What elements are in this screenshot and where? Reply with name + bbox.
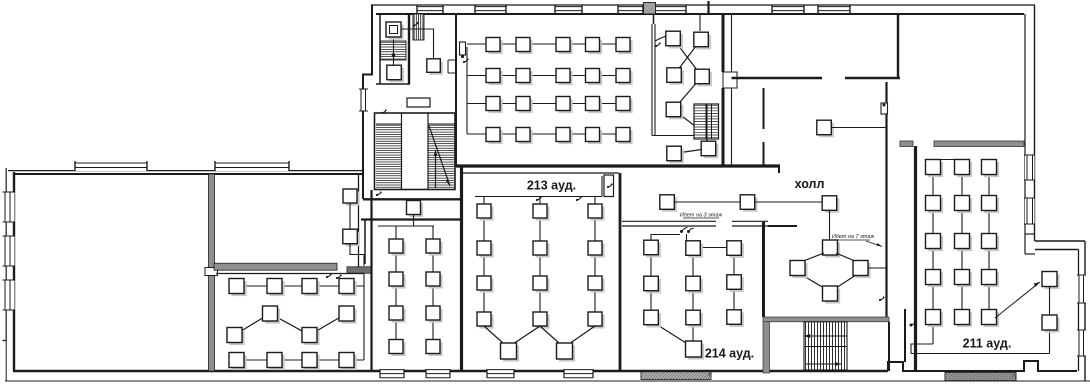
- door leaf above stairwell: [407, 98, 430, 107]
- cable bottom row room B: [237, 359, 365, 361]
- workstation room B row1: [339, 279, 357, 297]
- workstation r4c2 (top classroom): [516, 128, 533, 145]
- corridor box below stairwell: [407, 201, 424, 218]
- east wall of top room (lower): [722, 88, 725, 167]
- link E4-E5: [674, 77, 703, 110]
- workstation 214 c2: [686, 241, 703, 258]
- workstation C1: [389, 272, 406, 289]
- link E6-E7: [674, 149, 709, 154]
- workstation 211: [926, 270, 944, 288]
- east wall inner cap: [1025, 253, 1035, 255]
- duct line: [651, 24, 653, 136]
- workstation r4c5 (top classroom): [616, 128, 633, 145]
- workstation room B low: [227, 328, 245, 346]
- workstation 211: [926, 310, 944, 328]
- wall step down at hall opening: [778, 166, 780, 173]
- workstation C1: [389, 340, 406, 357]
- conduit riser symbol: [336, 274, 342, 279]
- entrance stair treads: [804, 322, 847, 370]
- hall box top: [822, 196, 839, 213]
- workstation C2: [426, 340, 443, 357]
- stair flight hatch (right): [429, 125, 455, 187]
- window (bottom wall): [487, 369, 514, 379]
- cable along room C north: [378, 225, 434, 227]
- workstation r4c3 (top classroom): [556, 128, 573, 145]
- workstation C2: [426, 272, 443, 289]
- link E5-radiator shaft: [674, 110, 701, 131]
- riser tail to box E6: [706, 139, 708, 142]
- teacher box room 213 a: [501, 343, 520, 362]
- room 213 west wall: [460, 166, 463, 371]
- outer top wall line: [371, 4, 1035, 6]
- window (left wall): [3, 192, 16, 222]
- east wall inner stub: [1024, 234, 1026, 254]
- stair flight hatch (left): [376, 125, 401, 187]
- workstation r3c3 (top classroom): [556, 97, 573, 114]
- door in gray wall: [205, 268, 218, 276]
- wall south of NE room (east span): [845, 77, 900, 80]
- workstation 214 c2: [686, 276, 703, 293]
- hall corridor wall (lower segment): [763, 142, 765, 167]
- workstation r2c4 (top classroom): [586, 69, 603, 86]
- cable column 214-2: [692, 241, 694, 342]
- cable room 213 north run: [475, 196, 602, 198]
- bottom wall (left+middle): [13, 370, 888, 373]
- workstation room B low2: [302, 328, 320, 346]
- cable along 211 south: [911, 353, 1050, 355]
- gray wall above room 211: [934, 141, 1024, 147]
- workstation room 213: [533, 241, 550, 258]
- workstation 214 bottom: [686, 341, 705, 360]
- cable tray bottom line (east): [732, 225, 768, 227]
- pier tick on top wall: [707, 1, 709, 14]
- gray wall west of entrance stair: [763, 322, 770, 373]
- window (top band): [818, 5, 850, 14]
- hall east wall: [885, 82, 887, 321]
- gray wall over entrance stair: [763, 317, 889, 322]
- room B east wall (upper): [358, 174, 360, 268]
- svg-text:213 ауд.: 213 ауд.: [527, 179, 576, 193]
- corridor cable b: [755, 201, 822, 203]
- workstation room 213: [588, 312, 605, 329]
- workstation room B mid: [263, 306, 281, 324]
- window (east wall upper): [1024, 198, 1035, 224]
- workstation r3c4 (top classroom): [586, 97, 603, 114]
- window (bottom wall): [380, 369, 404, 379]
- workstation room B row1: [267, 279, 285, 297]
- workstation C1: [389, 306, 406, 323]
- window (top band): [417, 5, 443, 14]
- workstation 214 c2: [686, 310, 703, 327]
- conduit riser symbol: [607, 183, 613, 188]
- stair landing line 2: [804, 346, 847, 348]
- workstation 211: [982, 160, 1000, 178]
- window (top band): [772, 5, 804, 14]
- conduit riser symbol: [879, 296, 885, 301]
- lower building top wall outer line: [8, 170, 363, 172]
- workstation r1c4 (top classroom): [586, 38, 603, 55]
- dark wall piece at door: [347, 267, 372, 273]
- riser bar 2 in radiator block: [711, 104, 713, 139]
- workstation 211: [955, 160, 973, 178]
- workstation E6: [701, 141, 718, 158]
- gray wall stub (west of door): [900, 141, 913, 147]
- stair arrow line: [435, 150, 437, 188]
- window (bottom wall): [426, 369, 450, 379]
- diag to bottom box 1: [484, 326, 504, 344]
- workstation room B bottom row: [339, 353, 357, 371]
- cable through small stair: [393, 37, 395, 65]
- cable riser (classroom west): [466, 47, 468, 134]
- conduit riser symbol: [326, 273, 332, 278]
- arrow link to east box: [995, 282, 1040, 318]
- classroom west wall: [455, 14, 457, 167]
- window (top band): [618, 5, 643, 14]
- workstation 211: [926, 196, 944, 214]
- conduit riser symbol: [463, 58, 469, 63]
- cable up to right boxes: [1049, 330, 1051, 354]
- cable to col1: [651, 235, 680, 241]
- inner top wall: [376, 13, 1024, 15]
- workstation E3: [667, 68, 684, 85]
- wall east of entrance stair: [888, 322, 890, 371]
- drop to column: [539, 197, 541, 205]
- cable column room 213: [594, 204, 596, 326]
- workstation room B bottom row: [229, 353, 247, 371]
- hall box bottom: [823, 286, 841, 304]
- window (top wall of lower building): [75, 161, 147, 171]
- workstation r2c2 (top classroom): [516, 69, 533, 86]
- room 211 west wall: [914, 146, 917, 371]
- wall south of NE room (west span): [732, 77, 823, 80]
- cable column 214-1: [650, 240, 652, 318]
- workstation E5: [666, 102, 683, 119]
- cable along gray wall: [216, 273, 364, 275]
- wall below stair corridor (room C north): [361, 218, 462, 220]
- workstation 211 east 2: [1042, 315, 1060, 333]
- workstation r1c2 (top classroom): [516, 38, 533, 55]
- riser box B-up2: [343, 229, 360, 246]
- leader arrow: [866, 241, 882, 247]
- room 213/214 wall: [619, 173, 622, 371]
- workstation r3c1 (top classroom): [486, 97, 503, 114]
- workstation room B bottom row: [267, 353, 285, 371]
- workstation 214 c3: [727, 275, 744, 292]
- conduit riser symbol: [376, 191, 382, 196]
- corridor box 1: [660, 195, 677, 212]
- conduit riser symbol: [655, 42, 661, 47]
- bottom wall (right, with door notches): [888, 361, 1077, 371]
- workstation E7: [667, 146, 684, 163]
- workstation 211: [955, 310, 973, 328]
- gray wall (big room east): [209, 174, 215, 371]
- diag mid-right: [836, 253, 856, 262]
- svg-text:Идет на 7 этаж: Идет на 7 этаж: [832, 234, 875, 240]
- cable tray top line (west): [622, 220, 716, 222]
- svg-text:холл: холл: [795, 177, 825, 191]
- step wall (outer): [1035, 240, 1085, 242]
- workstation room 213: [533, 312, 550, 329]
- workstation 214 c1: [644, 240, 661, 257]
- diag to bottom box 214: [656, 324, 686, 343]
- riser shaft hatch: [413, 14, 424, 40]
- workstation r4c4 (top classroom): [586, 128, 603, 145]
- drop to room 214 col2: [686, 234, 688, 241]
- diag to bottom box 2b: [569, 326, 595, 344]
- junction dot: [392, 53, 396, 57]
- workstation r2c3 (top classroom): [556, 69, 573, 86]
- workstation 211: [955, 270, 973, 288]
- workstation 211: [955, 196, 973, 214]
- window (east wall upper): [1024, 155, 1035, 180]
- wall below service boxes: [376, 83, 410, 85]
- cable hall right to wall: [868, 267, 887, 269]
- cable to corner box: [401, 29, 434, 58]
- cable column C2: [432, 226, 434, 353]
- window (left wall): [3, 236, 16, 266]
- workstation room 213: [533, 204, 550, 221]
- corridor box (upper hall): [817, 120, 834, 137]
- workstation room 213: [588, 241, 605, 258]
- diag to bottom box 2: [540, 326, 560, 344]
- stair stringer wall left: [401, 113, 403, 190]
- 211 top link: [926, 159, 970, 161]
- workstation 214 c3: [727, 310, 744, 327]
- window (east wall lower): [1077, 275, 1086, 303]
- window (left wall): [3, 280, 16, 310]
- workstation room B row1: [302, 279, 320, 297]
- cable column room 213: [539, 204, 541, 326]
- diag right-bottom: [836, 275, 856, 288]
- wall west of back door: [904, 309, 906, 362]
- cable tray top line (east): [732, 220, 768, 222]
- workstation 211: [982, 234, 1000, 252]
- radiator / riser block: [694, 104, 719, 139]
- cable column 211-3: [988, 160, 990, 325]
- workstation r3c2 (top classroom): [516, 97, 533, 114]
- cable tray bottom line (west): [622, 225, 716, 227]
- window (top band): [475, 5, 506, 14]
- outer east wall (lower): [1084, 241, 1086, 381]
- conduit riser symbol: [536, 196, 542, 201]
- main stairwell enclosure: [375, 113, 456, 190]
- wall below stairwell corridor: [363, 198, 462, 200]
- workstation 211: [926, 234, 944, 252]
- cable column C1: [395, 226, 397, 353]
- workstation 211: [982, 270, 1000, 288]
- junction devices: [680, 228, 694, 234]
- workstation E2: [694, 32, 711, 49]
- workstation 214 c1: [644, 310, 661, 327]
- svg-text:Идет на 3 этаж: Идет на 3 этаж: [680, 213, 723, 219]
- window cap at step: [1025, 233, 1035, 235]
- cable up to door: [601, 176, 603, 197]
- wall stub east of tray: [768, 225, 797, 227]
- riser device on hall east wall: [881, 103, 888, 114]
- left outer wall lower tail: [5, 341, 7, 382]
- cable column 211-2: [961, 160, 963, 325]
- svg-text:214 ауд.: 214 ауд.: [705, 347, 754, 361]
- workstation 214 c3: [727, 241, 744, 258]
- cable row1 room B: [237, 285, 365, 287]
- east wall inner line: [731, 14, 733, 167]
- workstation r3c5 (top classroom): [616, 97, 633, 114]
- gray wall above room B boxes: [214, 263, 337, 270]
- workstation room 213: [477, 312, 494, 329]
- link col2-col3: [700, 247, 727, 249]
- link east boxes: [1049, 287, 1051, 316]
- corridor box 2: [740, 195, 757, 212]
- wall B/C upper divider: [364, 220, 366, 265]
- workstation 211: [955, 234, 973, 252]
- workstation C2: [426, 239, 443, 256]
- workstation E1: [666, 31, 683, 48]
- window (upper-left wall): [359, 89, 368, 111]
- hatched porch strip (below room 214): [641, 372, 711, 380]
- cable row 1: [467, 43, 630, 45]
- workstation room B row1: [229, 279, 247, 297]
- workstation room B mid2: [339, 306, 357, 324]
- zig-zag cable room B: [235, 314, 347, 336]
- duct line 2: [654, 24, 656, 136]
- link duct to box E1: [655, 36, 666, 41]
- workstation room 213: [477, 204, 494, 221]
- diag left-bottom: [802, 275, 824, 288]
- workstation 211 east 1: [1042, 272, 1060, 290]
- upper building left wall: [363, 5, 372, 199]
- device box with double frame: [386, 22, 404, 40]
- door between top room and right section: [723, 72, 737, 88]
- wall (service room): [379, 14, 381, 84]
- svg-text:211 ауд.: 211 ауд.: [963, 337, 1012, 351]
- teacher box room 213 b: [557, 343, 576, 362]
- stair direction arrow line: [806, 363, 841, 365]
- room 214 east wall: [762, 222, 765, 317]
- left outer wall: [3, 168, 7, 341]
- left inner wall: [13, 172, 15, 371]
- window (top band): [555, 5, 582, 14]
- cable to device 211: [911, 344, 933, 354]
- room 213 north line: [461, 172, 619, 174]
- riser box B-up1: [343, 189, 360, 206]
- stair direction line: [429, 126, 450, 186]
- workstation C1: [389, 239, 406, 256]
- cable from corridor box to east wall: [831, 127, 887, 129]
- cable riser room B east: [363, 274, 365, 361]
- device box: [387, 65, 404, 82]
- workstation room 213: [533, 276, 550, 293]
- inner east wall (lower): [1078, 250, 1080, 372]
- cable column 214-3: [733, 241, 735, 317]
- hall cable down: [829, 210, 831, 240]
- inner east wall line (upper): [1024, 14, 1026, 234]
- workstation room 213: [588, 204, 605, 221]
- cable B riser: [349, 203, 351, 230]
- workstation C2: [426, 306, 443, 323]
- cable along bottom of right bay: [652, 135, 696, 137]
- drop cable: [413, 215, 415, 227]
- workstation room 213: [477, 276, 494, 293]
- workstation r1c5 (top classroom): [616, 38, 633, 55]
- small stair flight hatch: [381, 41, 407, 60]
- corridor cable a: [674, 201, 740, 203]
- riser device room 211: [910, 320, 917, 327]
- drop cable to box E2: [699, 15, 701, 31]
- cable row 2: [467, 75, 630, 77]
- workstation r1c3 (top classroom): [556, 38, 573, 55]
- stair stringer wall right: [427, 113, 429, 190]
- conduit riser symbol: [413, 22, 419, 27]
- riser bar in radiator block: [706, 104, 708, 139]
- workstation 211: [982, 310, 1000, 328]
- stair landing edge right: [429, 123, 456, 125]
- conduit riser symbol: [381, 109, 387, 114]
- cable to gray wall: [350, 244, 364, 266]
- conduit riser symbol: [576, 196, 582, 201]
- hatched porch strip (below room 211): [945, 372, 1016, 380]
- workstation 211: [926, 160, 944, 178]
- wall (service/stair divider): [408, 14, 410, 84]
- drop to column: [483, 197, 485, 205]
- cable column 211-1: [932, 160, 934, 345]
- drop to column: [594, 197, 596, 205]
- window (top band): [655, 5, 686, 14]
- cross link E2-E3: [674, 40, 701, 76]
- wall-mount switch: [460, 42, 466, 58]
- workstation r1c1 (top classroom): [486, 38, 503, 55]
- device box: [427, 59, 443, 75]
- cable row 4: [467, 133, 630, 135]
- workstation room 213: [477, 241, 494, 258]
- workstation room 213: [588, 276, 605, 293]
- diag to bottom box 1b: [513, 326, 540, 344]
- workstation 211: [982, 196, 1000, 214]
- workstation room B bottom row: [302, 353, 320, 371]
- cross link E1-E4: [673, 39, 702, 77]
- room B/C divider wall: [370, 190, 372, 371]
- hall corridor wall (upper segment): [763, 88, 765, 129]
- diag mid-left: [802, 253, 824, 262]
- outer east wall (upper): [1034, 5, 1036, 241]
- stair landing line 1: [804, 335, 847, 337]
- workstation r2c5 (top classroom): [616, 69, 633, 86]
- wall between NE rooms: [897, 14, 899, 78]
- upper building bottom wall: [456, 164, 780, 167]
- outermost ground line: [5, 380, 1090, 382]
- step wall (inner): [1035, 249, 1079, 251]
- cable column room 213: [483, 204, 485, 326]
- window (top wall of lower building): [215, 161, 289, 171]
- gray pier on top wall: [644, 3, 656, 15]
- workstation E4: [695, 69, 712, 86]
- window (east wall lower): [1077, 330, 1086, 356]
- hall box mid: [823, 240, 841, 258]
- hall box right: [853, 261, 871, 279]
- lower building top wall inner line: [13, 173, 363, 175]
- workstation r4c1 (top classroom): [486, 128, 503, 145]
- window (bottom wall): [564, 369, 593, 379]
- hall box left: [790, 261, 808, 279]
- stair landing edge left: [376, 123, 402, 125]
- workstation 214 c1: [644, 276, 661, 293]
- east wall of top room (upper): [722, 14, 725, 72]
- door leaf room 213: [604, 175, 614, 197]
- cable row 3: [467, 103, 630, 105]
- pier tail: [653, 14, 655, 24]
- workstation r2c1 (top classroom): [486, 69, 503, 86]
